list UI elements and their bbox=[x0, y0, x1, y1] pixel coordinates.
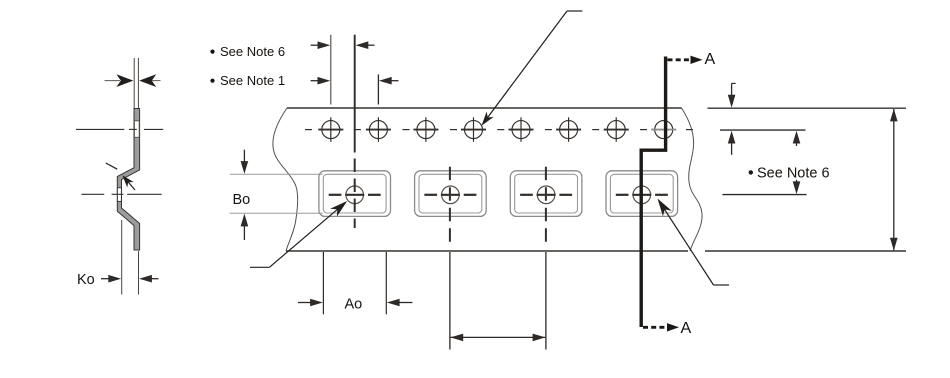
right dim: lower arrow pointing up to sprocket line bbox=[731, 140, 733, 155]
Bo extension lines bbox=[230, 174, 323, 213]
See Note 6 dimension (hole to pocket center) bbox=[311, 44, 321, 46]
pocket 3 vertical centerline + pitch extension bbox=[545, 167, 547, 247]
pocket 1 inner bbox=[323, 174, 386, 213]
section arrow A top bbox=[668, 58, 692, 61]
pocket 4 leader arrow bbox=[653, 196, 672, 217]
side view: tape cross-section body (gray) bbox=[117, 109, 139, 251]
pocket 2 outer bbox=[415, 171, 487, 217]
See Note 1 dimension (sprocket pitch) bbox=[311, 80, 321, 82]
hole 4 leader arrow bbox=[567, 10, 582, 12]
sprocket hole row dash-dot centerline bbox=[305, 129, 693, 131]
pocket 2 inner bbox=[419, 174, 482, 213]
sprocket hole 5 bbox=[509, 117, 534, 142]
pocket 4 horizontal centerline dashes bbox=[616, 194, 668, 196]
svg-text:See Note 6: See Note 6 bbox=[220, 44, 285, 59]
pocket 3 outer bbox=[510, 171, 582, 217]
side view: pocket centerline bbox=[81, 193, 161, 195]
pocket 1 vertical centerline (solid ext above, dashed below) bbox=[354, 35, 356, 153]
pocket 1 outer bbox=[319, 171, 391, 217]
right: sprocket centerline reference line bbox=[720, 129, 806, 131]
side view: sprocket centerline bbox=[76, 128, 163, 130]
pocket 3 inner bbox=[515, 174, 578, 213]
svg-text:Ao: Ao bbox=[345, 297, 363, 313]
pocket 1 leader arrow bbox=[250, 266, 269, 268]
sprocket hole 7 bbox=[604, 117, 629, 142]
pocket 4 inner bbox=[610, 174, 673, 213]
pocket 2 horizontal centerline dashes bbox=[424, 194, 476, 196]
right: pocket centerline reference line bbox=[722, 194, 806, 196]
hole 1 center extension line bbox=[330, 35, 332, 105]
hole 2 center extension line bbox=[377, 74, 379, 104]
sprocket hole 4 bbox=[461, 117, 486, 142]
pocket 1 horizontal centerline dashes bbox=[329, 194, 381, 196]
pocket 2 vertical centerline + pitch extension bbox=[449, 167, 451, 247]
sprocket hole 1 bbox=[318, 117, 343, 142]
section arrow A bottom bbox=[643, 326, 668, 329]
main view: left break curve bbox=[273, 108, 298, 251]
side view: leader arrow into pocket corner bbox=[106, 163, 117, 169]
svg-text:Bo: Bo bbox=[233, 192, 251, 208]
note text: See Note 6 (top left) bbox=[210, 50, 214, 54]
side view: tape thickness extension lines bbox=[134, 58, 138, 109]
sprocket hole 8 bbox=[651, 121, 676, 139]
sprocket hole 3 bbox=[413, 117, 438, 142]
Ao extension lines bbox=[323, 252, 386, 314]
svg-text:A: A bbox=[705, 51, 716, 68]
right: overall tape width dimension bbox=[893, 109, 895, 250]
note text: See Note 1 bbox=[210, 79, 214, 83]
pocket 4 index hole circle bbox=[633, 186, 651, 204]
svg-text:A: A bbox=[681, 320, 692, 337]
pocket 3 horizontal centerline dashes bbox=[520, 194, 572, 196]
Ko dimension arrows bbox=[101, 278, 111, 280]
section line A-A (thick) bbox=[641, 57, 665, 328]
side view: tape thickness dimension arrows bbox=[105, 80, 161, 82]
pocket 4 outer bbox=[606, 171, 678, 217]
right dim2: arrow up to sprocket line at x=796 bbox=[796, 140, 798, 146]
main view: tape top edge bbox=[287, 107, 906, 109]
pocket 2 index hole circle bbox=[442, 186, 460, 204]
Bo dimension arrows bbox=[243, 150, 245, 165]
svg-text:Ko: Ko bbox=[77, 272, 95, 288]
side view: pocket bottom hole in section bbox=[117, 188, 121, 202]
svg-text:See Note 6: See Note 6 bbox=[757, 166, 830, 182]
pocket 1 index hole circle bbox=[346, 186, 364, 204]
note text: See Note 6 (right) bbox=[749, 170, 753, 174]
side view: sprocket hole gap in section bbox=[135, 121, 139, 138]
pocket 3 index hole circle bbox=[537, 186, 555, 204]
pocket pitch dimension line bbox=[451, 336, 546, 338]
main view: tape bottom edge bbox=[286, 250, 906, 252]
Ko dimension extension lines bbox=[122, 220, 139, 295]
right dim: top edge to sprocket centerline, upper arrow bbox=[732, 82, 736, 84]
right dim2: arrow down to pocket line bbox=[796, 180, 798, 186]
sprocket hole 2 bbox=[366, 117, 391, 142]
sprocket hole 6 bbox=[556, 117, 581, 142]
Ao dimension arrows bbox=[298, 302, 313, 304]
main view: right break curve bbox=[682, 108, 703, 251]
svg-text:See Note 1: See Note 1 bbox=[220, 73, 285, 88]
